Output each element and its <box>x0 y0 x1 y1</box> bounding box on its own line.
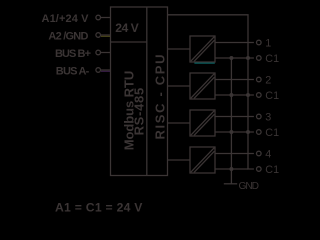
svg-text:C1: C1 <box>265 90 279 102</box>
svg-text:C1: C1 <box>265 53 279 65</box>
svg-text:C1: C1 <box>265 127 279 139</box>
svg-text:C1: C1 <box>265 164 279 176</box>
svg-text:A1/+24 V: A1/+24 V <box>42 13 90 25</box>
svg-text:A1 = C1 = 24 V: A1 = C1 = 24 V <box>55 201 143 215</box>
svg-text:2: 2 <box>265 75 271 87</box>
svg-text:1: 1 <box>265 38 271 50</box>
svg-text:RISC - CPU: RISC - CPU <box>152 55 167 140</box>
svg-text:3: 3 <box>265 112 271 124</box>
svg-text:BUS A-: BUS A- <box>56 66 90 78</box>
svg-text:GND: GND <box>239 181 260 192</box>
svg-text:24 V: 24 V <box>115 21 139 35</box>
svg-text:A2 /GND: A2 /GND <box>48 31 88 43</box>
svg-text:4: 4 <box>265 149 271 161</box>
svg-text:RS-485: RS-485 <box>131 88 146 136</box>
svg-text:BUS B+: BUS B+ <box>55 48 91 60</box>
